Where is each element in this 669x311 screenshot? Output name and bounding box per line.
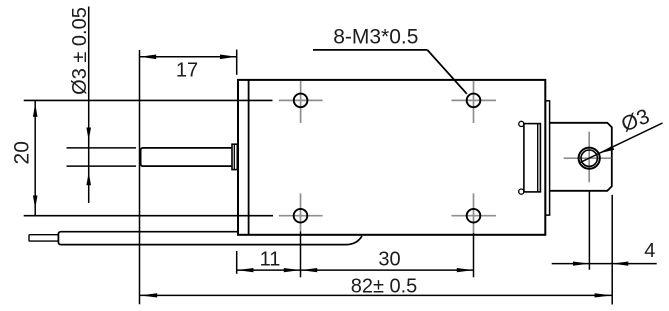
hole bottom-left M3 (294, 209, 308, 223)
label pole hole dia arrow (600, 146, 615, 154)
dim 17 arrow left (140, 55, 156, 60)
dim shaft dia arrow down (86, 128, 91, 141)
shaft edge extension lines (67, 148, 137, 166)
pole hole crosshair (564, 132, 612, 183)
dim shaft dia arrow up (86, 172, 91, 185)
dim shaft dia leader line (88, 7, 90, 204)
dim 17 extension line left (139, 50, 141, 304)
svg-text:30: 30 (378, 248, 400, 270)
dim 11/30 line (237, 269, 474, 271)
dim 17 arrow right (220, 55, 236, 60)
dim 11 arrow right (284, 268, 300, 272)
pole cylinder (550, 123, 612, 191)
pole hole inner circle (581, 150, 597, 166)
dim 82 arrow left (140, 293, 157, 297)
label 8-M3*0.5 leader (427, 50, 467, 94)
plunger shaft (141, 148, 232, 166)
terminal pin bottom (519, 189, 524, 194)
hole top-left M3 (294, 94, 308, 108)
hole bottom-right M3 (467, 209, 481, 223)
dim 30 extension line right (473, 233, 475, 277)
solenoid body frame (238, 80, 545, 235)
label pole hole dia leader (581, 123, 663, 162)
svg-text:17: 17 (176, 60, 198, 82)
svg-text:Ø3 ± 0.05: Ø3 ± 0.05 (69, 7, 91, 95)
svg-text:4: 4 (644, 240, 655, 262)
dim 20 arrow up (33, 103, 38, 117)
hole top-right crosshair (452, 81, 497, 123)
dim 82 line (140, 294, 613, 296)
hole bottom-left crosshair (279, 193, 323, 231)
dim 20 line (34, 100, 36, 215)
dim 4 line left (552, 263, 657, 265)
coil bobbin bracket (524, 124, 541, 192)
dim 20 reference line bottom (24, 215, 273, 217)
svg-text:11: 11 (260, 249, 281, 271)
hole top-left crosshair (279, 81, 323, 123)
lead wire conductor (29, 235, 58, 241)
terminal pin top (519, 121, 524, 126)
pole hole outer circle (579, 148, 600, 169)
dim 20 reference line top (24, 99, 273, 101)
svg-text:82± 0.5: 82± 0.5 (351, 276, 418, 298)
dim 82 arrow right (595, 293, 612, 297)
dim 20 arrow down (33, 196, 38, 209)
dim 11 arrow left (237, 268, 253, 272)
label 8-M3*0.5 underline (313, 49, 427, 51)
dim 30 arrow left (301, 268, 317, 272)
svg-text:20: 20 (11, 141, 34, 164)
plunger flange (232, 144, 237, 169)
dim 11 extension line left (236, 251, 238, 274)
dim 17 line (140, 56, 237, 58)
dim 4 arrow right (612, 262, 628, 266)
hole bottom-right crosshair (452, 193, 497, 233)
hole top-right M3 (467, 94, 481, 108)
dim 4 extension line left (588, 191, 590, 270)
dim 4 arrow left (573, 262, 589, 266)
right mounting flange (545, 101, 549, 215)
lead wire sheath (58, 232, 362, 245)
dim 11/30 extension line mid (300, 232, 302, 278)
dim 30 arrow right (457, 268, 473, 272)
svg-text:8-M3*0.5: 8-M3*0.5 (333, 26, 418, 49)
dim 4 extension line right (611, 195, 613, 305)
dim 17 extension line right (236, 50, 238, 75)
